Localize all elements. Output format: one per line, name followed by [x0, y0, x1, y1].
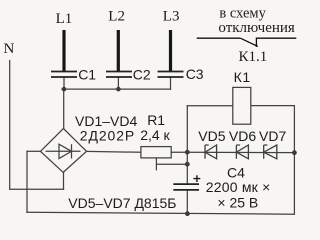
svg-text:L3: L3	[163, 9, 180, 25]
wire C1 stub to bridge top	[63, 77, 65, 129]
wire right vertical	[293, 106, 295, 215]
svg-text:C1: C1	[78, 66, 96, 82]
svg-text:2,4 к: 2,4 к	[140, 127, 170, 143]
zener diode VD7	[264, 145, 277, 159]
svg-text:VD6: VD6	[229, 128, 256, 144]
svg-text:VD1–VD4: VD1–VD4	[75, 113, 137, 129]
resistor R1	[141, 147, 171, 158]
capacitor C3	[158, 30, 184, 77]
svg-text:К1: К1	[234, 69, 251, 85]
wire bottom bus	[27, 212, 294, 214]
wire bridge bottom lead	[63, 172, 65, 189]
wire N to bridge bottom	[10, 188, 64, 190]
bridge rectifier VD1-VD4 diamond	[41, 129, 87, 173]
svg-text:К1.1: К1.1	[239, 49, 268, 65]
svg-text:отключения: отключения	[218, 20, 295, 36]
svg-text:R1: R1	[147, 112, 165, 128]
svg-text:VD5–VD7 Д815Б: VD5–VD7 Д815Б	[68, 195, 176, 211]
wire top rail left of K1	[187, 105, 233, 107]
C4 plus sign	[193, 175, 200, 182]
wire left DC- vertical	[26, 151, 28, 212]
svg-text:N: N	[4, 41, 15, 57]
wire bridge right to R1	[87, 150, 141, 153]
zener diode VD6	[236, 145, 248, 159]
wire bridge left to DC-	[27, 150, 41, 152]
svg-text:VD7: VD7	[259, 128, 286, 144]
wire R1 to node A	[171, 151, 187, 153]
junction node wiper	[185, 162, 190, 167]
svg-text:2Д202Р: 2Д202Р	[80, 128, 135, 144]
svg-text:× 25 В: × 25 В	[217, 194, 258, 210]
svg-text:L2: L2	[108, 8, 125, 24]
junction node under C2	[116, 87, 121, 92]
svg-text:C3: C3	[186, 66, 204, 82]
svg-text:C2: C2	[133, 67, 151, 83]
junction node B	[292, 150, 297, 155]
wire R1 wiper tap	[156, 158, 187, 170]
svg-text:2200 мк ×: 2200 мк ×	[206, 179, 271, 195]
junction node C4 bottom	[185, 211, 190, 216]
svg-text:VD5: VD5	[198, 128, 225, 144]
wire C3 stub	[170, 77, 172, 89]
junction node A	[185, 150, 190, 155]
svg-text:L1: L1	[56, 11, 73, 27]
capacitor C1	[51, 30, 77, 77]
wire zener chain	[187, 151, 294, 153]
wire C2 stub	[117, 77, 119, 89]
relay coil K1	[233, 87, 251, 124]
wire node column	[186, 106, 188, 184]
wire top rail right of K1	[251, 105, 295, 107]
capacitor C4	[173, 184, 199, 190]
wire N vertical	[9, 61, 11, 190]
junction node under C1	[62, 87, 67, 92]
zener diode VD5	[205, 145, 217, 159]
bridge inner diode	[46, 144, 81, 158]
wire capacitor bus	[62, 88, 171, 90]
contact K1.1	[197, 38, 297, 47]
wire C4 bottom lead	[186, 190, 188, 214]
capacitor C2	[106, 30, 132, 77]
